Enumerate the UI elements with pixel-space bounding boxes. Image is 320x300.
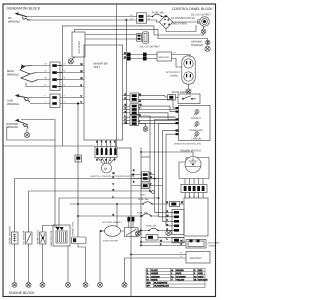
svg-text:W: W [64, 77, 66, 80]
svg-text:GRAY: GRAY [198, 275, 204, 278]
svg-text:BLUE: BLUE [176, 272, 182, 275]
generator block bottom border [3, 145, 95, 147]
svg-text:AUTO GEN: AUTO GEN [208, 242, 220, 245]
svg-text:M: M [104, 167, 107, 171]
svg-text:W: W [81, 77, 83, 80]
svg-text:OIL SENSOR: OIL SENSOR [22, 230, 25, 244]
svg-text:Lg: Lg [171, 275, 173, 278]
DC 12V output receptacle J2 [191, 13, 211, 26]
diode bridge D1 (DC protector) [159, 15, 173, 29]
wires: engine switch to control unit [185, 193, 203, 199]
wire: econ switch feed [139, 96, 168, 97]
svg-text:TERMINAL: TERMINAL [191, 44, 204, 47]
engine component: ignition coil [50, 198, 71, 287]
wire: DC winding line 2 [28, 19, 137, 21]
svg-text:W: W [64, 70, 66, 73]
rectifier U1 [72, 32, 85, 57]
svg-text:WINDING: WINDING [7, 103, 19, 106]
svg-text:W: W [45, 63, 47, 66]
main winding W2 (3-phase star) [20, 64, 38, 82]
wire: battery negative to ground [124, 258, 126, 282]
svg-text:W: W [81, 63, 83, 66]
wire: main winding phase 2 [36, 72, 84, 74]
wire: indicator feed 5 [139, 116, 176, 118]
connector CN4 (DC line 2P) [137, 13, 147, 23]
svg-text:W: W [113, 172, 115, 175]
wire: AC output line 1 [123, 54, 158, 56]
wire: rectifier output 2 [85, 38, 137, 40]
connector J7 (2P inline mid) [131, 172, 159, 182]
svg-text:START: START [209, 245, 217, 248]
indicator unit U3 [179, 106, 211, 141]
svg-text:L: L [171, 272, 172, 275]
engine component: spark plug [36, 226, 56, 288]
wire: main winding neutral [26, 83, 84, 87]
wire: DC line 2 to diamond [147, 20, 160, 22]
wire: indicator feed 2 [139, 106, 176, 112]
wire: harness h2 [29, 190, 151, 192]
wire: panel signal 4 [123, 109, 131, 111]
svg-text:Br: Br [131, 14, 133, 17]
wire: DC winding line 1 [26, 16, 137, 18]
inverter unit U2 [84, 45, 123, 140]
junction dots [77, 16, 167, 256]
svg-text:START MOTOR: START MOTOR [103, 240, 118, 243]
wire: control loop lower [75, 29, 208, 45]
wire: panel signal 8 [123, 123, 131, 125]
svg-text:W: W [124, 56, 126, 59]
wire: panel signal 2 [123, 98, 131, 100]
wire: harness h3 [59, 197, 159, 199]
stepping motor connector CN5 [95, 140, 117, 158]
wire: breaker to receptacle hot [172, 55, 191, 58]
svg-text:SPEED SENSOR: SPEED SENSOR [8, 226, 11, 244]
svg-text:PINK: PINK [198, 272, 203, 275]
svg-text:OUTPUT: OUTPUT [191, 117, 201, 120]
wire: diamond to DC receptacle [173, 21, 200, 23]
svg-text:(RECTIFIER): (RECTIFIER) [172, 22, 187, 25]
svg-text:W: W [166, 201, 168, 204]
connector J6 (control unit aux) [172, 238, 184, 243]
svg-text:ENGINE BLOCK: ENGINE BLOCK [9, 291, 35, 295]
block title: CONTROL PANEL BLOCK [172, 7, 213, 11]
wire: engine switch feed [141, 151, 193, 153]
svg-text:BLACK/YELLOW: BLACK/YELLOW [154, 285, 169, 288]
svg-text:WHITE: WHITE [151, 278, 158, 281]
svg-text:W: W [81, 70, 83, 73]
fuse F3 (10A) [78, 214, 159, 217]
wire: fuse to rectifier diamond [164, 15, 166, 16]
svg-text:ECON SWITCH: ECON SWITCH [172, 91, 190, 94]
ground: ignition winding [24, 129, 29, 138]
connector J1 (AC line inline pins) [127, 53, 147, 61]
svg-text:DC PROTECTOR 8A: DC PROTECTOR 8A [171, 17, 195, 20]
wire: ignition winding loop [7, 120, 55, 141]
svg-text:YELLOW: YELLOW [176, 278, 184, 281]
ground: start motor [98, 282, 103, 287]
wire: battery link stub [141, 156, 150, 158]
block title: ENGINE BLOCK [9, 291, 35, 295]
wire: ignition feed down [54, 140, 56, 226]
wire: AC output line 2 [123, 58, 158, 60]
lamp L1 output [194, 110, 199, 116]
connector J8 (1P inline mid) [131, 183, 163, 188]
legend table [146, 269, 205, 288]
svg-text:W: W [139, 100, 141, 103]
economy switch S1 [172, 91, 200, 104]
wire: main winding phase 1 [32, 65, 84, 67]
connector J5 (econ inline) [168, 95, 179, 100]
svg-text:LOW OIL: LOW OIL [192, 138, 203, 141]
wire: diamond bottom to ground bus [166, 25, 196, 32]
svg-text:RED: RED [198, 269, 203, 272]
svg-text:Sb: Sb [194, 278, 196, 281]
fuse F1 15A [147, 14, 165, 17]
wire: panel bus right vertical [140, 148, 142, 246]
svg-text:W: W [189, 195, 191, 198]
ground: control unit [166, 230, 172, 235]
svg-text:W: W [150, 176, 152, 179]
svg-text:CHOKE COIL: CHOKE COIL [72, 221, 75, 236]
svg-text:(TWIN): (TWIN) [170, 75, 178, 78]
svg-text:B/W: B/W [147, 282, 151, 285]
svg-text:BLACK/WHITE: BLACK/WHITE [154, 282, 168, 285]
svg-text:WINDING: WINDING [7, 73, 19, 76]
svg-text:SPARK PLUG: SPARK PLUG [36, 230, 39, 245]
stepping motor M1 [97, 158, 115, 174]
fuse F4 (10A lower) [141, 228, 174, 231]
wire: indicator feed 3 [139, 109, 176, 111]
svg-text:BLACK: BLACK [151, 269, 158, 272]
wire: panel signal 5 [123, 112, 131, 114]
wire: panel signal 3 [123, 105, 131, 107]
wire: indicator to control a [163, 131, 179, 222]
svg-text:WINDING: WINDING [8, 20, 20, 23]
control unit U4 [184, 198, 208, 236]
svg-text:W: W [174, 52, 176, 55]
connector CN1 (main winding 4P) [50, 62, 62, 91]
svg-text:W: W [140, 104, 142, 107]
svg-text:DC 12V OUTPUT: DC 12V OUTPUT [140, 46, 160, 49]
wire: start circuit pins [127, 216, 134, 228]
indicator input pins [176, 107, 179, 135]
engine component: oil sensor [22, 191, 32, 287]
svg-text:BATTERY: BATTERY [190, 257, 202, 260]
wire: panel signal 7 [123, 119, 131, 121]
wire: indicator to control b [166, 134, 179, 226]
wire: panel bus left vertical [130, 148, 132, 297]
wire: battery sense drop [150, 191, 152, 193]
engine component: speed sensor [8, 179, 18, 288]
ground: battery [122, 282, 127, 287]
control unit input pins column [172, 210, 184, 235]
svg-text:FUSE 15A: FUSE 15A [138, 198, 149, 201]
ground: rectifier case [68, 57, 75, 64]
svg-text:CONTROL PANEL BLOCK: CONTROL PANEL BLOCK [172, 7, 213, 11]
svg-text:GREEN: GREEN [151, 272, 158, 275]
svg-text:IGNITION COIL: IGNITION COIL [50, 230, 53, 247]
sub winding W3 [15, 94, 30, 102]
svg-text:Gy: Gy [194, 275, 196, 278]
svg-text:W: W [181, 240, 183, 243]
svg-text:SKY BLUE: SKY BLUE [198, 278, 208, 281]
svg-text:BROWN: BROWN [176, 269, 184, 272]
terminal ring: battery line [152, 191, 155, 194]
block title: GENERATOR BLOCK [7, 7, 41, 11]
wire: indicator feed 4 [139, 113, 176, 120]
svg-text:WINDING: WINDING [6, 126, 18, 129]
svg-text:LT GREEN: LT GREEN [176, 275, 186, 278]
svg-text:W: W [167, 215, 169, 218]
connector CN2 (sub winding 2P) [50, 94, 60, 108]
svg-text:W: W [45, 70, 47, 73]
engine switch S2 [179, 149, 209, 192]
connector J3 (DC aux output) [137, 32, 149, 43]
svg-text:ORANGE: ORANGE [151, 275, 160, 278]
svg-text:UNIT: UNIT [94, 65, 101, 69]
wire: stair c1 [139, 116, 176, 192]
ground: panel connector shield [139, 124, 148, 132]
start motor M2 [100, 221, 123, 243]
wire: start motor vertical [99, 231, 101, 282]
ground terminal symbols [191, 40, 210, 51]
svg-text:DC 12V OUTPUT: DC 12V OUTPUT [191, 13, 211, 16]
svg-text:BREAKER: BREAKER [159, 56, 170, 59]
wire: panel signal 6 [123, 116, 131, 118]
wire: sub winding line 1 [29, 97, 84, 99]
svg-text:(IGNITION CONTROLLER): (IGNITION CONTROLLER) [174, 143, 201, 146]
lamp L2 overload [194, 122, 199, 128]
wire: main winding phase 3 [38, 79, 84, 81]
svg-text:W: W [64, 63, 66, 66]
svg-text:W: W [131, 18, 133, 21]
svg-text:GENERATOR BLOCK: GENERATOR BLOCK [7, 7, 41, 11]
wire: control loop upper (to DC ground) [62, 26, 203, 146]
wire: indicator feed 6 [139, 120, 176, 123]
svg-text:AC OUTPUT: AC OUTPUT [166, 71, 180, 74]
DC winding W1 [15, 12, 31, 20]
page border frame [3, 4, 216, 297]
svg-text:FUSE 10A: FUSE 10A [146, 224, 157, 227]
svg-text:BATT: BATT [141, 194, 147, 197]
ground: DC receptacle chassis [201, 26, 206, 34]
svg-text:W: W [125, 104, 127, 107]
wire: rectifier input from top [74, 29, 76, 32]
fuse F2 (15A panel) [70, 201, 184, 206]
starter relay K1 [121, 228, 142, 237]
connector CN3a (inverter-panel 2P) [130, 93, 139, 102]
connector J9 (1P inline low) [141, 235, 184, 240]
svg-text:RECTIFIER: RECTIFIER [78, 41, 81, 54]
svg-text:FUSE 15A: FUSE 15A [152, 12, 164, 15]
wire: stair c2 [155, 120, 176, 213]
lamp L3 low oil [194, 132, 199, 138]
connector J10 (auto gen start) [141, 240, 206, 249]
svg-text:ELECTRIC MAGNET: ELECTRIC MAGNET [102, 221, 122, 224]
svg-text:L: L [198, 195, 199, 198]
wire: panel signal 1 [123, 95, 131, 97]
svg-text:FUSE 10A: FUSE 10A [137, 211, 148, 214]
wire: harness h1 [15, 178, 163, 180]
svg-text:W: W [160, 240, 162, 243]
connector CN3c (inverter-panel 3P) [130, 115, 139, 126]
svg-text:W: W [124, 52, 126, 55]
ground: AC receptacle [186, 84, 191, 94]
ground: panel bus [135, 230, 141, 237]
wire: rectifier output 1 [85, 34, 137, 36]
wire: breaker to receptacle neutral [172, 59, 183, 68]
junction: sub winding tap [77, 103, 79, 105]
svg-text:W: W [45, 77, 47, 80]
wire: indicator feed 1 [139, 99, 176, 108]
battery BT1 [125, 252, 211, 264]
wire: sub winding line 2 [30, 103, 84, 105]
circuit breaker CB1 [157, 52, 172, 61]
engine component: choke heater [72, 104, 89, 288]
wire: stair c3 [159, 124, 176, 217]
wire: generator-panel link [117, 147, 131, 149]
generator block right border [116, 4, 118, 146]
wire: inverter sense line [125, 20, 127, 123]
wire: start relay feed vertical [116, 204, 118, 227]
connector CN3b (inverter-panel 3P) [130, 104, 139, 115]
svg-text:W: W [147, 278, 149, 281]
ignition winding W4 [15, 119, 28, 129]
svg-text:W: W [181, 201, 183, 204]
AC duplex receptacle J4 [182, 56, 195, 84]
